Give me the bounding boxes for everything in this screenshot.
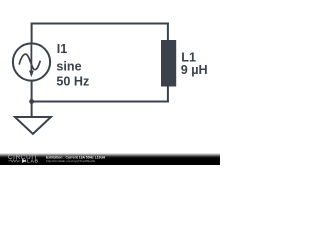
footer bar — [0, 153, 220, 165]
svg-text:sine: sine — [56, 59, 81, 73]
wire top-right vertical (top rail to L1 top) — [167, 23, 169, 41]
CircuitLab logo: diode — [22, 159, 25, 162]
current source I1 — [13, 43, 50, 80]
wire L1 bottom to bottom rail — [167, 87, 169, 102]
wire bottom rail — [31, 101, 169, 103]
footer url text — [46, 159, 95, 163]
junction dot — [29, 99, 34, 104]
ground — [15, 117, 51, 134]
wire top-left vertical (source top to top rail) — [31, 24, 33, 45]
inductor L1 — [161, 40, 176, 87]
svg-text:I1: I1 — [57, 42, 68, 56]
CircuitLab logo: LAB — [27, 158, 39, 164]
wire top rail — [31, 23, 169, 25]
CircuitLab logo: CIRCUIT — [8, 154, 38, 161]
svg-text:9 µH: 9 µH — [181, 63, 208, 77]
footer title text — [46, 155, 106, 159]
svg-text:50 Hz: 50 Hz — [56, 75, 89, 89]
CircuitLab logo: resistor zigzag — [8, 160, 20, 162]
wire source bottom to bottom rail — [31, 80, 33, 102]
wire node to ground — [31, 102, 33, 118]
